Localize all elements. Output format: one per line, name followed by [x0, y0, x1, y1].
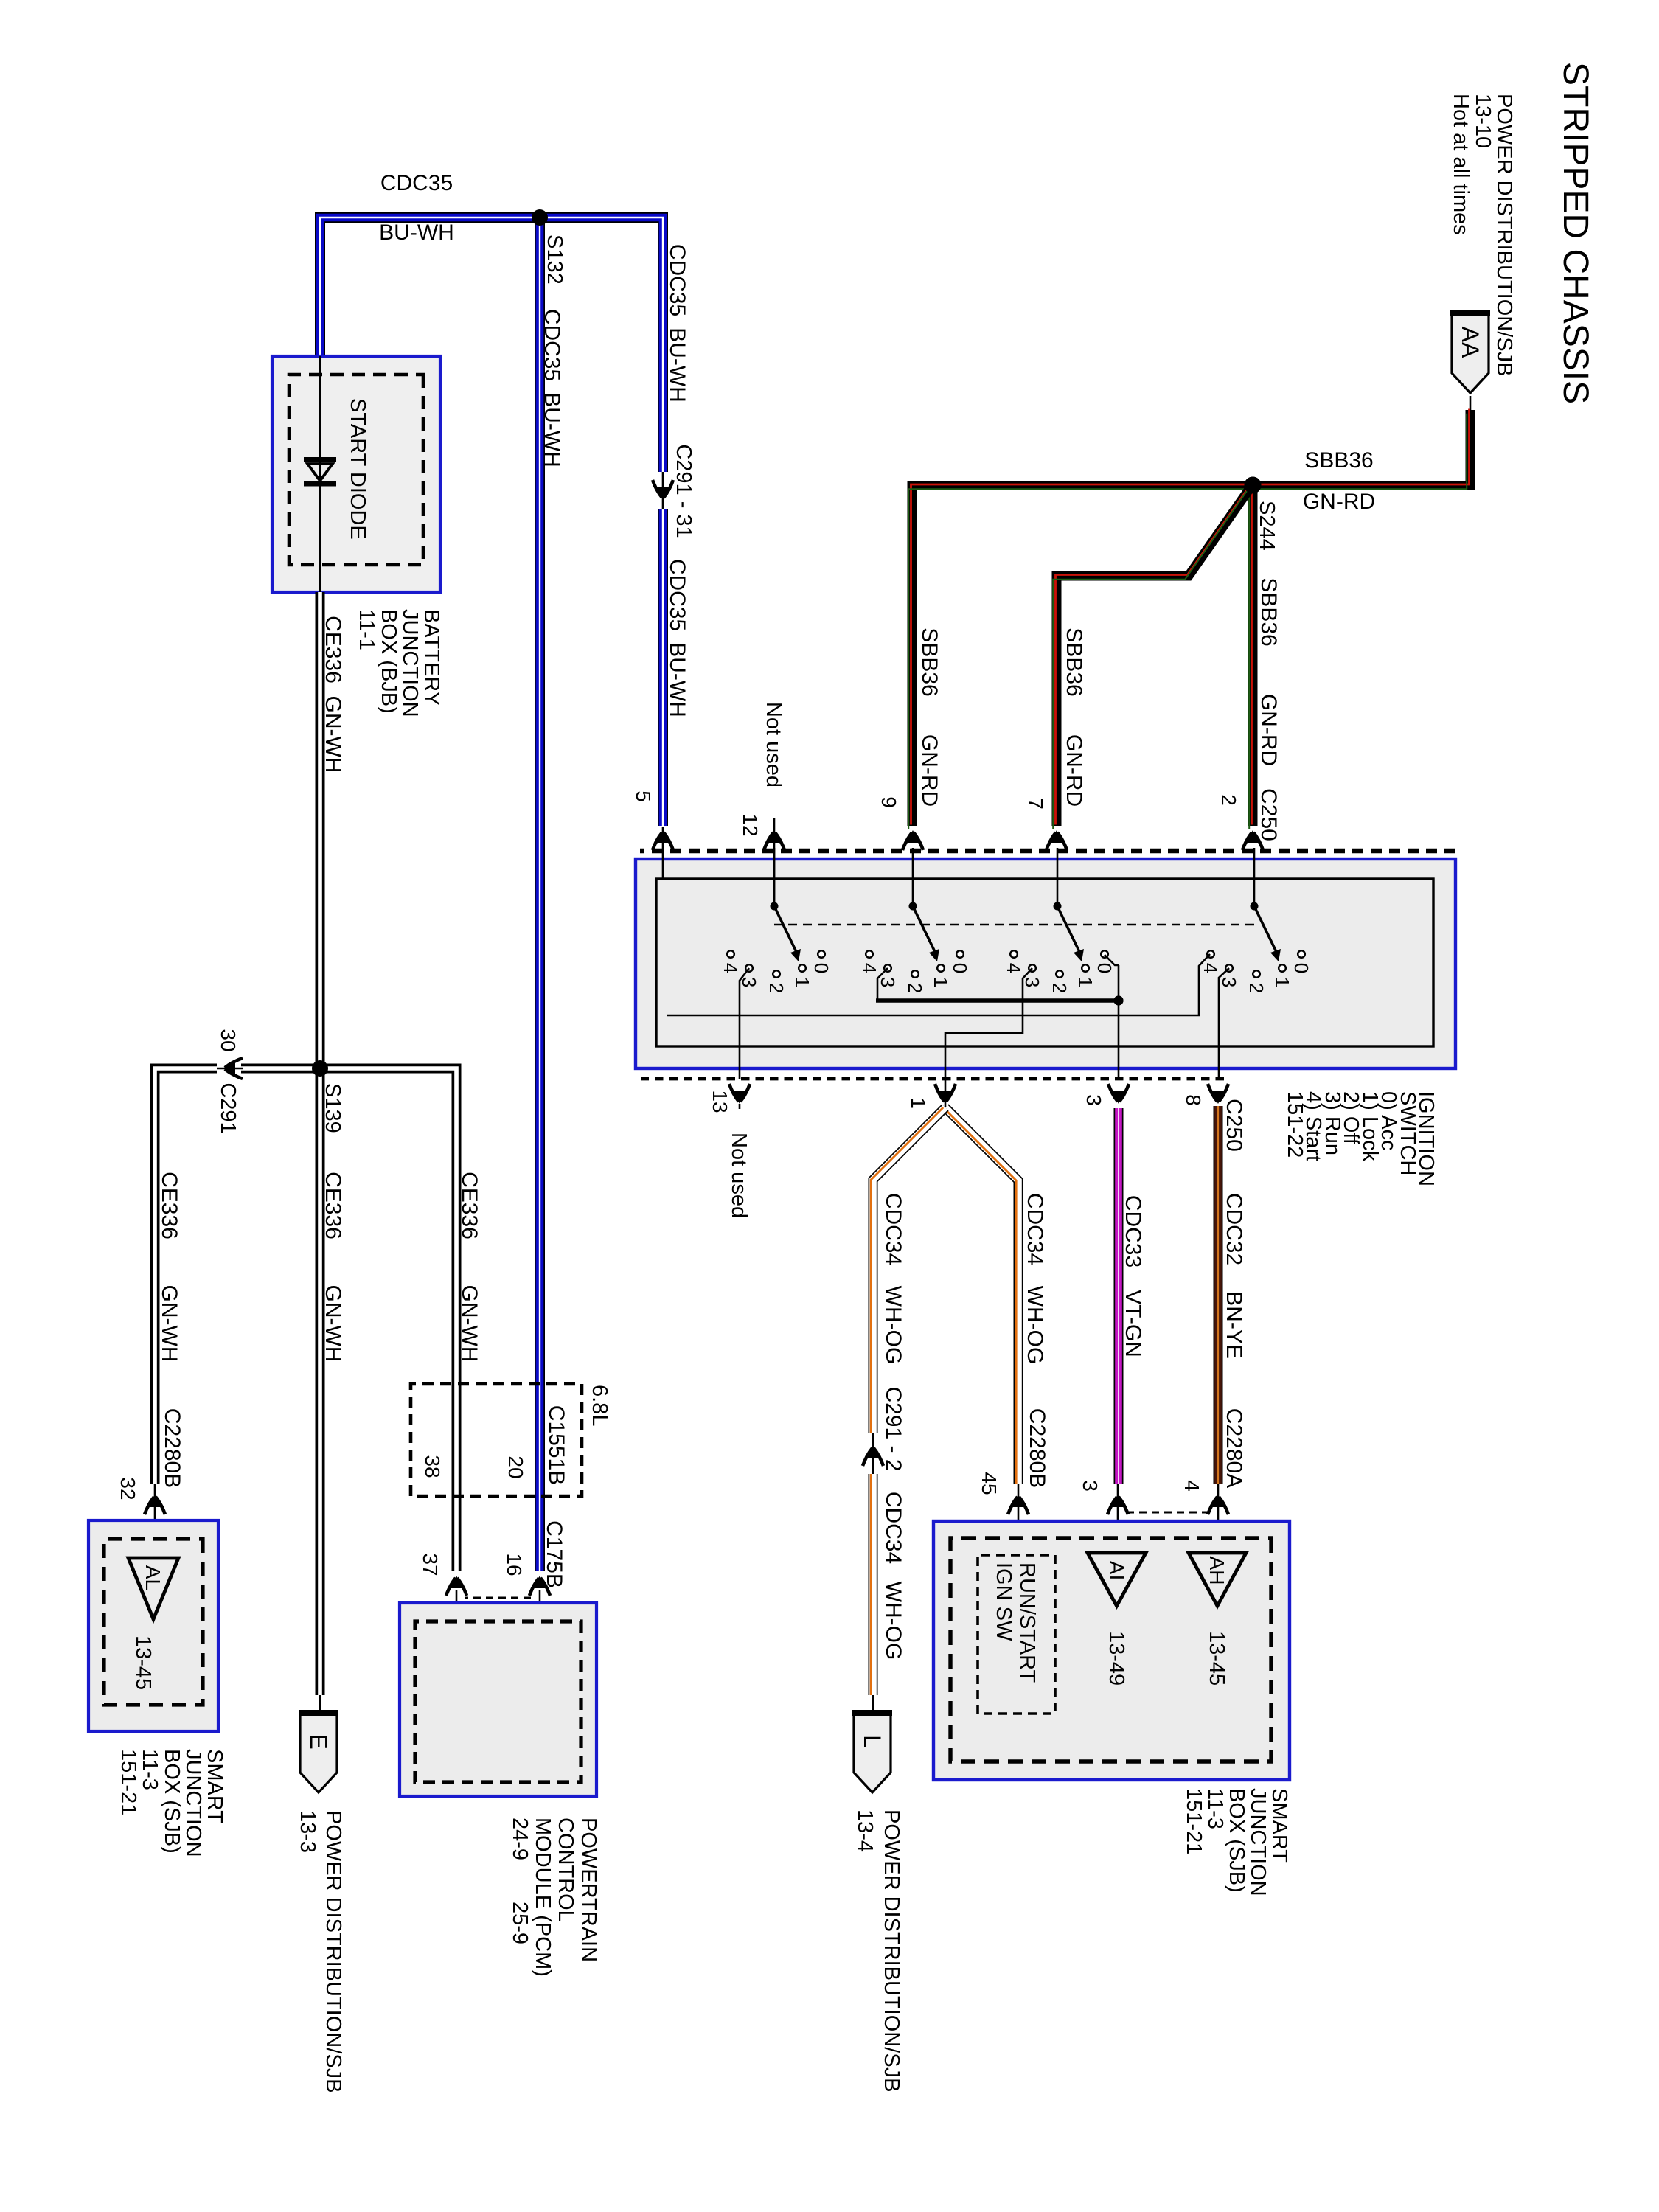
svg-text:11-1: 11-1	[355, 609, 378, 650]
arrow pin 5	[653, 830, 673, 850]
PCM connector dashed link	[465, 1597, 531, 1599]
start diode dashed rect	[289, 375, 423, 565]
arrow at SJB pin 4	[1208, 1495, 1228, 1514]
svg-text:Hot at all times: Hot at all times	[1449, 94, 1472, 235]
svg-text:13-49: 13-49	[1105, 1631, 1128, 1686]
6.8L dashed box C1551B	[411, 1384, 582, 1496]
connector L	[852, 1712, 892, 1792]
svg-text:MODULE (PCM): MODULE (PCM)	[531, 1818, 554, 1977]
svg-text:30: 30	[217, 1029, 240, 1051]
pin 5 stub line	[662, 827, 664, 879]
svg-text:BN-YE: BN-YE	[1222, 1291, 1246, 1359]
svg-text:CDC32: CDC32	[1222, 1193, 1246, 1265]
svg-text:GN-WH: GN-WH	[321, 696, 345, 773]
label POWERTRAIN CONTROL MODULE (PCM) 24-9 25-9	[508, 1818, 600, 1977]
svg-text:7: 7	[1024, 798, 1047, 810]
arrow at C291-31	[653, 480, 673, 500]
svg-text:POWERTRAIN: POWERTRAIN	[577, 1818, 600, 1962]
svg-text:3: 3	[1021, 977, 1043, 987]
ignition switch unit 2 arm	[913, 906, 939, 961]
exit 8 arrow	[1208, 1084, 1228, 1104]
labels on pin2 branch	[1256, 577, 1281, 841]
svg-text:4: 4	[1180, 1480, 1203, 1492]
labels CE336 GN-WH E run	[321, 1172, 345, 1362]
svg-text:13: 13	[709, 1090, 731, 1113]
svg-text:SMART: SMART	[1267, 1788, 1291, 1863]
svg-text:20: 20	[504, 1455, 527, 1478]
svg-text:SBB36: SBB36	[1304, 448, 1373, 473]
svg-text:AH: AH	[1206, 1557, 1228, 1585]
labels CDC33 VT-GN	[1121, 1195, 1145, 1357]
pin 45 line into SJB	[1018, 1484, 1020, 1555]
svg-text:BU-WH: BU-WH	[379, 220, 454, 245]
svg-text:GN-WH: GN-WH	[157, 1285, 181, 1363]
ignition switch box	[636, 859, 1455, 1068]
thin stub to E	[319, 1695, 321, 1714]
ignition switch unit 1 contacts	[720, 950, 832, 993]
switch internal wire exit 1 from unit3 contact 3	[945, 968, 1032, 1079]
wire CDC34 WH-OG lower branch to C291-2	[871, 1107, 945, 1433]
connector break C291-2 thin link	[872, 1433, 874, 1474]
ignition switch unit 4 contacts	[1200, 950, 1312, 993]
exit 1 arrow	[935, 1084, 956, 1104]
label POWER DISTRIBUTION/SJB 13-3	[296, 1810, 345, 2093]
wire CDC32 BN-YE to SJB pin 4	[1214, 1106, 1223, 1484]
svg-text:WH-OG: WH-OG	[881, 1286, 905, 1365]
svg-text:11-3: 11-3	[138, 1749, 161, 1790]
svg-text:AI: AI	[1105, 1561, 1128, 1580]
pin 3 line to AI triangle	[1117, 1484, 1119, 1553]
svg-text:C2280A: C2280A	[1222, 1408, 1246, 1488]
svg-text:CONTROL: CONTROL	[554, 1818, 577, 1922]
svg-text:1: 1	[1074, 977, 1096, 987]
svg-text:12: 12	[739, 813, 762, 836]
svg-text:11-3: 11-3	[1203, 1788, 1227, 1829]
junction S139 (top)	[312, 1060, 328, 1077]
ignition switch unit 3 contacts	[1003, 950, 1116, 993]
ignition switch unit 4 arm	[1254, 906, 1281, 961]
arrow at PCM pin 16	[529, 1576, 550, 1596]
svg-text:CDC35: CDC35	[540, 309, 564, 381]
svg-text:13-10: 13-10	[1471, 94, 1495, 148]
svg-text:STRIPPED CHASSIS: STRIPPED CHASSIS	[1556, 62, 1595, 404]
svg-text:2: 2	[1048, 983, 1071, 993]
svg-text:AA: AA	[1457, 327, 1484, 358]
label IGNITION SWITCH legend	[1283, 1091, 1438, 1186]
svg-text:GN-RD: GN-RD	[1303, 490, 1375, 514]
svg-text:IGN SW: IGN SW	[992, 1562, 1015, 1641]
svg-text:SMART: SMART	[203, 1749, 226, 1823]
svg-text:16: 16	[503, 1553, 526, 1576]
svg-text:RUN/START: RUN/START	[1015, 1562, 1039, 1683]
arrow at PCM pin 37	[446, 1576, 467, 1596]
svg-text:5: 5	[632, 790, 655, 802]
svg-text:C291: C291	[216, 1082, 240, 1133]
wire CE336 GN-WH from S139 down to SJB pin 32	[241, 1064, 320, 1074]
svg-text:1: 1	[791, 977, 813, 987]
arrow at pin 32	[145, 1495, 165, 1514]
svg-text:CDC33: CDC33	[1121, 1195, 1145, 1267]
labels CDC34 WH-OG upper branch	[1023, 1193, 1049, 1488]
arrow at C291 break	[223, 1058, 243, 1079]
svg-text:13-45: 13-45	[1205, 1631, 1228, 1686]
svg-text:151-21: 151-21	[116, 1749, 140, 1815]
connector break C291-31 thin link	[662, 472, 664, 509]
connector break 30 / C291 thin link	[215, 1068, 243, 1070]
svg-text:WH-OG: WH-OG	[881, 1582, 905, 1660]
svg-text:CE336: CE336	[457, 1172, 481, 1239]
svg-text:CE336: CE336	[157, 1172, 181, 1239]
arrow pin 12	[764, 830, 785, 850]
svg-text:38: 38	[421, 1455, 444, 1478]
smart junction box (left)	[88, 1520, 218, 1731]
labels CE336 GN-WH diode run	[321, 616, 345, 773]
label SMART JUNCTION BOX (SJB) 11-3 151-21 right	[1182, 1788, 1291, 1896]
wire from AA tip	[1470, 396, 1472, 411]
labels on pin16 run	[540, 309, 564, 467]
pin 37 line into PCM	[456, 1590, 458, 1621]
svg-text:JUNCTION: JUNCTION	[181, 1749, 205, 1857]
svg-text:Not used: Not used	[727, 1133, 751, 1218]
junction S244 (top)	[1245, 477, 1262, 494]
svg-text:9: 9	[877, 796, 900, 808]
labels CDC34 WH-OG after break	[881, 1492, 905, 1660]
ignition switch unit 2 contacts	[858, 950, 971, 993]
svg-text:GN-WH: GN-WH	[321, 1285, 345, 1363]
svg-text:C2280B: C2280B	[1025, 1408, 1049, 1488]
wire CDC33 VT-GN to SJB pin 3	[1114, 1108, 1124, 1484]
thin stub to L	[872, 1695, 874, 1714]
svg-text:SBB36: SBB36	[1256, 577, 1281, 646]
wire SBB36 GN-RD branch to switch pin 2	[1249, 484, 1253, 829]
svg-text:2: 2	[904, 983, 926, 993]
start diode box	[272, 356, 440, 592]
svg-text:POWER DISTRIBUTION/SJB: POWER DISTRIBUTION/SJB	[1492, 94, 1516, 376]
junction S244	[1245, 477, 1262, 494]
ignition switch connector dashed line (output side)	[641, 1077, 1224, 1081]
ignition switch unit 4 pivot and pole line	[1251, 848, 1259, 911]
svg-text:CDC34: CDC34	[1023, 1193, 1047, 1265]
junction S139	[313, 1061, 328, 1077]
SJB right connector dashed link	[1127, 1512, 1209, 1514]
wire CE336 GN-WH lower part to pin 32	[155, 1068, 217, 1484]
SJB left dashed rect	[104, 1539, 203, 1705]
svg-text:GN-RD: GN-RD	[917, 734, 942, 807]
svg-text:1: 1	[1271, 977, 1293, 987]
svg-text:SBB36: SBB36	[1062, 627, 1086, 696]
connector E	[299, 1712, 338, 1792]
labels C250 CDC32 BN-YE C2280A	[1222, 1099, 1246, 1488]
svg-text:BOX (BJB): BOX (BJB)	[377, 609, 400, 714]
switch internal thick bus from unit2 contact 3	[877, 968, 888, 1001]
svg-text:GN-RD: GN-RD	[1062, 734, 1086, 807]
svg-text:13-3: 13-3	[296, 1810, 319, 1853]
svg-text:AL: AL	[142, 1565, 164, 1590]
svg-text:CDC34: CDC34	[881, 1193, 905, 1265]
svg-text:CDC35: CDC35	[380, 171, 453, 195]
connector AA (POWER DISTRIBUTION/SJB)	[1450, 313, 1490, 393]
svg-text:BU-WH: BU-WH	[665, 327, 689, 403]
smart junction box (right)	[933, 1521, 1290, 1780]
svg-text:GN-RD: GN-RD	[1256, 694, 1281, 766]
wire CDC35 BU-WH left part to diode	[320, 218, 663, 472]
svg-text:3: 3	[877, 977, 899, 987]
SJB right outer dashed rect	[950, 1538, 1271, 1761]
svg-text:S132: S132	[543, 234, 566, 285]
svg-text:JUNCTION: JUNCTION	[1246, 1788, 1270, 1896]
labels C1551B 20 C175B 16	[503, 1405, 568, 1588]
switch internal junction dot	[1114, 996, 1124, 1006]
triangle AH	[1189, 1553, 1246, 1606]
ignition switch unit 3 arm	[1057, 906, 1084, 961]
svg-text:JUNCTION: JUNCTION	[398, 609, 422, 717]
svg-text:3: 3	[1079, 1480, 1102, 1492]
switch internal wire from unit4 contact 4	[667, 954, 1210, 1015]
svg-text:START DIODE: START DIODE	[346, 398, 369, 540]
exit 13 arrow and stub	[729, 1084, 750, 1109]
svg-text:POWER DISTRIBUTION/SJB: POWER DISTRIBUTION/SJB	[880, 1809, 903, 2092]
svg-text:BOX (SJB): BOX (SJB)	[160, 1749, 184, 1854]
switch internal junction dot (top)	[1114, 996, 1124, 1006]
svg-text:C175B: C175B	[542, 1520, 566, 1588]
arrow at C291-2	[863, 1446, 883, 1466]
labels CE336 GN-WH 37 run	[457, 1172, 481, 1362]
wire through diode box	[319, 356, 321, 592]
powertrain control module box	[400, 1603, 597, 1796]
svg-text:WH-OG: WH-OG	[1023, 1286, 1047, 1365]
svg-text:151-21: 151-21	[1182, 1788, 1206, 1854]
wire SBB36 GN-RD from AA to S244 and down to switch pin 9	[908, 409, 1470, 829]
svg-text:2: 2	[765, 983, 787, 993]
svg-text:13-45: 13-45	[131, 1635, 155, 1690]
svg-text:S139: S139	[321, 1083, 344, 1133]
svg-text:4: 4	[1003, 963, 1025, 973]
thin link from exit 1 to orange split	[945, 1079, 947, 1107]
svg-text:32: 32	[116, 1477, 139, 1500]
wire CDC34 WH-OG upper branch to SJB pin 45	[943, 1107, 1018, 1484]
svg-text:2: 2	[1245, 983, 1267, 993]
RUN/START IGN SW dashed rect	[978, 1555, 1055, 1714]
pin 12 line to unit1 pivot	[773, 818, 776, 906]
switch internal wire exit 3	[1118, 965, 1120, 1079]
svg-text:C1551B: C1551B	[544, 1405, 568, 1485]
arrow at SJB pin 3	[1107, 1495, 1128, 1514]
switch internal wire exit 13	[740, 968, 749, 1079]
wire CDC34 WH-OG lower branch to L connector	[871, 1474, 873, 1695]
wire CDC35 BU-WH vertical main with branch to start diode	[658, 509, 668, 826]
arrow pin 2	[1242, 830, 1263, 850]
junction S132 (top)	[532, 209, 548, 226]
svg-text:Not used: Not used	[762, 702, 785, 787]
svg-text:CDC34: CDC34	[881, 1492, 905, 1564]
pin 16 line into PCM	[539, 1590, 541, 1621]
wire CDC35 BU-WH from S132 to PCM pin 16	[535, 218, 545, 1571]
svg-text:24-9: 24-9	[508, 1818, 532, 1860]
labels on pin7 branch	[1062, 627, 1086, 807]
svg-text:25-9: 25-9	[508, 1902, 532, 1944]
svg-text:4: 4	[1200, 963, 1222, 973]
wire CE336 GN-WH from diode to E connector	[316, 592, 325, 1695]
svg-text:C2280B: C2280B	[160, 1408, 184, 1488]
header power distribution note	[1449, 94, 1516, 376]
ignition switch unit 1 pivot and pole line	[771, 848, 779, 911]
svg-text:C291 - 31: C291 - 31	[672, 444, 695, 538]
labels CDC34 WH-OG lower branch	[881, 1193, 905, 1472]
label RUN/START IGN SW	[992, 1562, 1039, 1683]
svg-text:3: 3	[1218, 977, 1240, 987]
labels CDC35 BU-WH on pin5 run	[665, 244, 689, 717]
svg-text:BOX (SJB): BOX (SJB)	[1225, 1788, 1248, 1893]
svg-text:4: 4	[858, 963, 880, 973]
svg-text:POWER DISTRIBUTION/SJB: POWER DISTRIBUTION/SJB	[321, 1810, 345, 2093]
junction S132	[532, 210, 548, 226]
svg-text:L: L	[859, 1735, 886, 1748]
svg-text:4: 4	[720, 963, 742, 973]
svg-text:2: 2	[1217, 794, 1240, 806]
svg-text:BU-WH: BU-WH	[665, 642, 689, 717]
ignition switch unit 1 arm	[774, 906, 801, 961]
svg-text:E: E	[305, 1733, 332, 1749]
svg-text:C291 - 2: C291 - 2	[881, 1386, 905, 1471]
label SMART JUNCTION BOX (SJB) 11-3 151-21 left	[116, 1749, 226, 1857]
label POWER DISTRIBUTION/SJB 13-4	[853, 1809, 903, 2092]
label BATTERY JUNCTION BOX (BJB) 11-1	[355, 609, 443, 717]
labels CE336 GN-WH 32 run	[157, 1172, 184, 1488]
ignition switch inner rect	[656, 879, 1433, 1046]
svg-text:151-22: 151-22	[1283, 1091, 1307, 1158]
triangle AI	[1088, 1553, 1146, 1606]
arrow pin 7	[1046, 830, 1067, 850]
svg-text:C250: C250	[1256, 788, 1281, 841]
svg-text:VT-GN: VT-GN	[1121, 1290, 1145, 1357]
svg-text:1: 1	[930, 977, 952, 987]
svg-text:0: 0	[810, 963, 832, 973]
svg-text:SBB36: SBB36	[917, 627, 942, 696]
svg-text:8: 8	[1182, 1094, 1205, 1106]
svg-text:S244: S244	[1255, 501, 1279, 551]
wire CE336 GN-WH from S139 to PCM pin 37	[320, 1068, 456, 1571]
labels on pin9 branch	[917, 627, 942, 807]
svg-text:BATTERY: BATTERY	[420, 609, 443, 706]
svg-text:45: 45	[978, 1472, 1001, 1495]
ignition switch connector dashed line (input side)	[640, 849, 1455, 854]
svg-text:6.8L: 6.8L	[588, 1385, 611, 1426]
switch internal wire exit 8 from unit4 contact 3	[1219, 968, 1229, 1079]
ignition switch unit 2 pivot and pole line	[909, 848, 917, 911]
svg-text:CE336: CE336	[321, 616, 345, 684]
triangle AL	[128, 1558, 178, 1619]
arrow pin 9	[902, 830, 923, 850]
svg-text:37: 37	[419, 1553, 442, 1576]
svg-text:13-4: 13-4	[853, 1809, 877, 1852]
svg-text:CDC35: CDC35	[665, 244, 689, 316]
pin 4 line to AH triangle	[1217, 1484, 1220, 1553]
ignition switch gang dashed line	[774, 924, 1254, 926]
svg-text:0: 0	[949, 963, 971, 973]
svg-text:0: 0	[1290, 963, 1312, 973]
svg-text:GN-WH: GN-WH	[457, 1285, 481, 1363]
pin 32 line into SJB	[154, 1484, 156, 1558]
wire SBB36 GN-RD branch to switch pin 7	[1053, 487, 1251, 829]
svg-text:1: 1	[907, 1097, 930, 1109]
arrow at pin 45	[1008, 1495, 1029, 1514]
svg-text:CDC35: CDC35	[665, 559, 689, 631]
svg-text:C250: C250	[1222, 1099, 1246, 1152]
diode symbol	[304, 457, 336, 487]
svg-text:3: 3	[1082, 1094, 1105, 1106]
svg-text:CE336: CE336	[321, 1172, 345, 1239]
switch internal wire from unit3 contact 0	[1105, 955, 1119, 965]
ignition switch unit 3 pivot and pole line	[1054, 848, 1062, 911]
svg-text:0: 0	[1093, 963, 1116, 973]
svg-text:BU-WH: BU-WH	[540, 392, 564, 467]
PCM dashed rect	[415, 1621, 581, 1782]
exit 3 arrow	[1108, 1084, 1129, 1104]
